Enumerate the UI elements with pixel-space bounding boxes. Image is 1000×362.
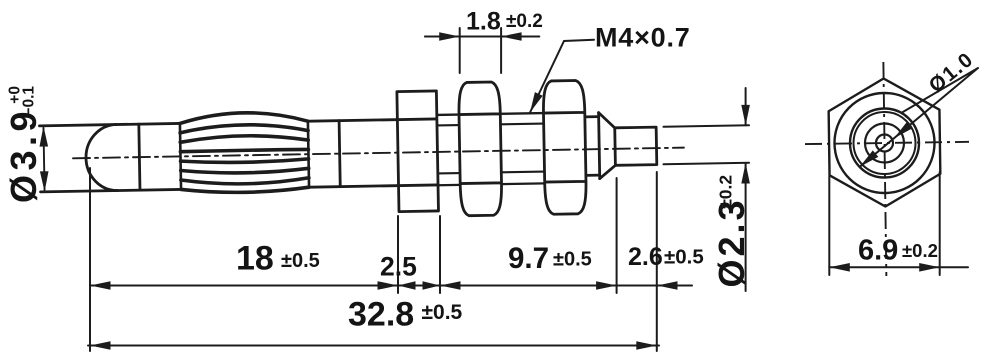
- svg-text:1.8: 1.8: [466, 8, 501, 36]
- flange: [397, 91, 439, 212]
- svg-text:M4×0.7: M4×0.7: [595, 23, 691, 53]
- rounded nose arc: [85, 125, 117, 192]
- dia 3.9 dimension line: [43, 128, 44, 190]
- tip section: [615, 127, 657, 165]
- dia 1.0 leader line: [860, 68, 978, 167]
- dimension arrowheads: [90, 32, 750, 350]
- extension line flange right: [439, 216, 441, 293]
- circle body dia 3.9 outer: [850, 108, 920, 178]
- thread minor diameter lines: [437, 124, 545, 174]
- dimension line 32.8: [88, 345, 659, 347]
- end view horizontal centerline: [805, 142, 969, 144]
- cone taper: [599, 112, 616, 178]
- knurl ridges: [180, 112, 309, 194]
- extension line left (x=90): [89, 168, 91, 351]
- end view vertical centerline: [883, 62, 886, 276]
- svg-text:±0.5: ±0.5: [422, 301, 463, 324]
- dia 2.3 extension lines: [664, 125, 750, 164]
- circle washer face: [834, 92, 935, 193]
- main centerline: [73, 148, 684, 159]
- circle dia 2.3: [865, 123, 905, 163]
- end view arrowheads: [829, 122, 939, 272]
- 6.9 extension lines: [829, 172, 939, 275]
- knurl right end: [308, 121, 309, 187]
- extension line taper start: [616, 178, 618, 293]
- dimension line 18 / 2.5 / 9.7 / 2.6: [90, 285, 692, 287]
- cap joint line: [139, 124, 140, 190]
- circle chamfer ring: [853, 112, 916, 175]
- svg-text:−0.1: −0.1: [21, 86, 38, 117]
- thread major diameter lines: [437, 113, 545, 185]
- svg-text:Ø2.3: Ø2.3: [711, 197, 752, 287]
- knurl left end: [180, 123, 181, 189]
- extension line tip end: [656, 172, 658, 351]
- svg-text:9.7: 9.7: [508, 242, 549, 275]
- M4x0.7 leader line: [530, 40, 594, 113]
- svg-text:±0.2: ±0.2: [902, 240, 938, 261]
- svg-text:±0.2: ±0.2: [716, 175, 736, 209]
- svg-text:±0.5: ±0.5: [553, 249, 592, 271]
- svg-text:±0.2: ±0.2: [506, 11, 543, 32]
- end view hexagon: [828, 78, 941, 208]
- circle hole dia 1.0: [876, 134, 893, 151]
- 1.8 extension lines: [460, 28, 501, 73]
- cone base line: [599, 113, 600, 179]
- pin body bottom line (with left extension): [41, 185, 437, 192]
- body joint line after knurl: [339, 121, 340, 187]
- svg-text:18: 18: [236, 240, 274, 278]
- hex nut N2: [543, 80, 587, 214]
- svg-text:32.8: 32.8: [348, 296, 414, 334]
- pin body top line (with left extension): [39, 119, 435, 126]
- svg-text:6.9: 6.9: [858, 235, 898, 267]
- svg-text:2.6: 2.6: [628, 243, 663, 271]
- svg-text:±0.5: ±0.5: [281, 250, 320, 272]
- svg-text:Ø3.9: Ø3.9: [3, 107, 44, 203]
- 6.9 dimension line: [829, 266, 968, 268]
- dia 2.3 dimension line: [745, 88, 747, 291]
- svg-text:±0.5: ±0.5: [664, 246, 704, 269]
- 1.8 dimension line: [425, 36, 539, 38]
- svg-text:2.5: 2.5: [380, 252, 417, 282]
- hex nut N1: [458, 82, 502, 216]
- collar behind nut: [585, 117, 599, 176]
- extension line flange left: [397, 216, 399, 293]
